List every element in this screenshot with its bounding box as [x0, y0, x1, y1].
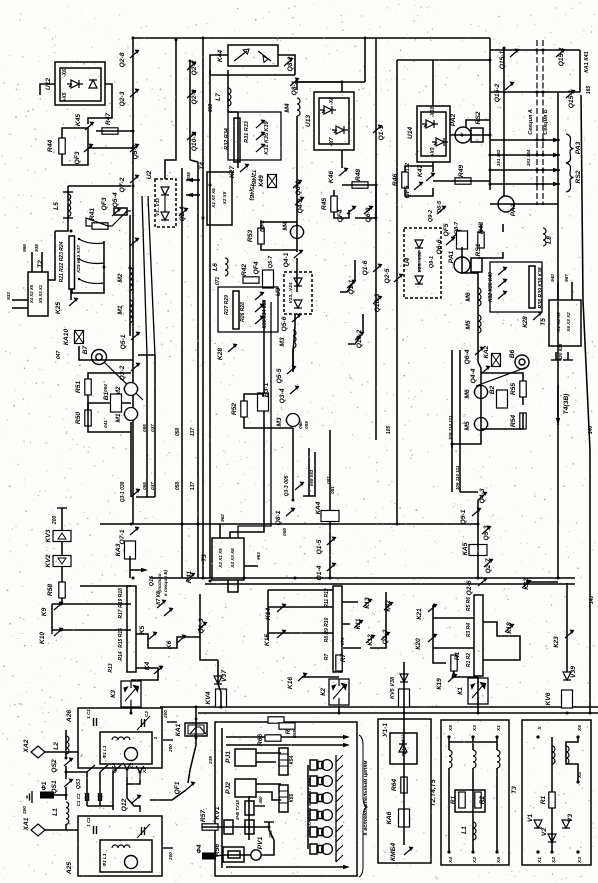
svg-text:-X6: -X6 — [62, 69, 68, 77]
svg-text:L5: L5 — [53, 202, 60, 210]
relay KA3 — [125, 541, 136, 559]
relay KV6 — [562, 690, 573, 708]
wire Q1-1 vertical — [375, 38, 377, 440]
switch Q6-4 — [475, 347, 485, 356]
wire grid row2 — [52, 629, 131, 631]
resistor R49 — [455, 178, 471, 184]
switch Q1-5 — [327, 537, 337, 546]
box R31-R34 block — [228, 112, 281, 160]
arrow line 151 — [490, 139, 560, 141]
wire m1 down — [130, 422, 132, 497]
resistor R51 — [85, 379, 91, 395]
switch K42 — [384, 602, 394, 611]
winding t2 0 — [449, 750, 452, 768]
wire r46 loop — [405, 166, 433, 196]
svg-text:Q4-2: Q4-2 — [297, 198, 304, 213]
switch Q7-1 — [130, 527, 140, 536]
wire grid c right — [342, 592, 386, 648]
switch K12 — [366, 635, 376, 644]
svg-text:X1: X1 — [129, 763, 135, 770]
wire aux bus B — [198, 712, 598, 714]
svg-text:Ф1: Ф1 — [41, 781, 48, 790]
tbar L5 bot — [63, 217, 73, 219]
coil A25 L1 — [112, 845, 130, 848]
svg-text:K46: K46 — [328, 171, 335, 184]
svg-text:K5: K5 — [139, 625, 146, 634]
junction dot 543,184 — [542, 183, 545, 186]
wire T3 feed a — [230, 300, 264, 538]
contact K29 — [79, 239, 104, 244]
terminal X1 top — [495, 735, 498, 738]
wire q15 mid — [490, 91, 580, 93]
svg-text:Q1-1: Q1-1 — [378, 125, 385, 140]
svg-text:QS3: QS3 — [76, 779, 82, 789]
svg-text:К32 К36 К40: К32 К36 К40 — [488, 272, 494, 302]
svg-text:058: 058 — [282, 528, 287, 536]
box U14 outer — [417, 106, 450, 162]
junction dot 210,185 — [209, 184, 212, 187]
meter PJ1 — [235, 749, 256, 766]
wire t2 top link — [449, 741, 497, 743]
svg-text:К1: К1 — [457, 687, 464, 695]
terminal X bot 2 — [495, 850, 498, 853]
svg-text:R21 R22 R23 R24: R21 R22 R23 R24 — [59, 241, 65, 282]
switch K35 — [256, 132, 266, 141]
sensor B6 outer — [515, 355, 529, 369]
svg-text:Q2-8: Q2-8 — [119, 52, 126, 67]
junction dot 131,713 — [130, 712, 133, 715]
junction dot 66,758 — [65, 757, 68, 760]
svg-text:R7: R7 — [340, 653, 347, 662]
svg-text:Q4-3: Q4-3 — [479, 488, 486, 503]
svg-text:987: 987 — [564, 274, 569, 282]
diode V2 — [548, 834, 556, 842]
winding t2 1 — [473, 750, 476, 768]
wire t2 col 0 — [448, 737, 450, 750]
svg-text:Q8-1: Q8-1 — [275, 510, 282, 525]
switch K4 — [154, 666, 164, 675]
coil M6 w — [478, 288, 481, 306]
ant XA1 — [31, 824, 45, 836]
svg-text:R32 R34: R32 R34 — [224, 128, 230, 150]
cap qs a — [86, 793, 89, 801]
junction dot 71,231 — [70, 230, 73, 233]
wire q1-3 vert — [200, 594, 218, 660]
arrowhead aux2 — [343, 743, 350, 747]
svg-text:К54: К54 — [289, 755, 295, 764]
wire grid c top — [268, 589, 333, 591]
svg-text:X6: X6 — [577, 725, 583, 732]
switch Q2-4 — [179, 208, 189, 217]
svg-text:K25: K25 — [55, 302, 62, 315]
resistor bar R38 R39 — [529, 266, 535, 308]
wire U2 feed vertical — [165, 40, 176, 179]
svg-text:Q5-6: Q5-6 — [281, 316, 288, 331]
svg-text:V1: V1 — [527, 814, 534, 822]
svg-text:X2: X2 — [472, 857, 478, 864]
switch K20 — [428, 634, 438, 643]
svg-text:Q1-3: Q1-3 — [198, 618, 205, 633]
wire r45 qf4 loop — [334, 185, 376, 218]
cap A25 C1 — [94, 826, 97, 834]
svg-text:1 С1: 1 С1 — [86, 709, 91, 719]
wire K44 right — [278, 55, 295, 75]
svg-text:К13: К13 — [364, 597, 371, 609]
svg-text:R54: R54 — [510, 415, 517, 428]
svg-text:X2: X2 — [142, 767, 148, 774]
svg-text:-X10: -X10 — [430, 107, 436, 118]
svg-text:QF1: QF1 — [174, 781, 181, 794]
svg-text:105: 105 — [386, 426, 392, 435]
relay box K2 — [329, 679, 349, 705]
diode U12b — [89, 80, 97, 88]
svg-text:088: 088 — [208, 104, 214, 113]
svg-text:КА3: КА3 — [115, 543, 122, 556]
wire r5x bottom — [88, 395, 131, 432]
socket XA5 — [318, 795, 323, 802]
svg-text:Т2: Т2 — [37, 260, 44, 268]
junction dot 140,772 — [139, 771, 142, 774]
svg-text:109 110 111: 109 110 111 — [448, 415, 453, 440]
switch K45 — [85, 122, 95, 131]
svg-text:Т5(4Б): Т5(4Б) — [248, 183, 254, 200]
svg-text:U2: U2 — [146, 170, 153, 179]
switch Q3-1b — [131, 489, 141, 498]
svg-text:ХА1: ХА1 — [23, 817, 30, 831]
svg-text:Q2-6: Q2-6 — [466, 580, 473, 595]
switch K14 — [277, 604, 287, 613]
svg-text:РЈ2: РЈ2 — [225, 782, 232, 794]
switch Q5-2 — [130, 144, 140, 153]
box A25 inner — [100, 840, 152, 872]
svg-text:058: 058 — [175, 482, 181, 491]
svg-text:М6: М6 — [465, 292, 472, 302]
svg-text:Ф4: Ф4 — [196, 844, 203, 853]
svg-text:037: 037 — [150, 482, 155, 490]
relay Q5-4 — [114, 208, 127, 215]
wire L5 — [55, 186, 68, 231]
svg-text:Q6-4: Q6-4 — [464, 349, 471, 364]
svg-text:КА1: КА1 — [175, 723, 182, 736]
switch QS2 — [64, 758, 74, 767]
switch K25 — [69, 298, 79, 307]
resistor R45 — [331, 196, 337, 212]
thyristor U1-1 — [399, 740, 407, 756]
switch K47 — [426, 173, 436, 182]
svg-text:ХА3 ХА4 ХА5 ХА6 ХА7 ХА8: ХА3 ХА4 ХА5 ХА6 ХА7 ХА8 — [307, 778, 312, 837]
switch Q8-1 — [290, 78, 300, 87]
svg-text:М1: М1 — [115, 413, 122, 423]
coil M2 w — [130, 268, 133, 290]
tbar 200 kv3 — [57, 507, 67, 509]
wire Q7-2 cross — [68, 185, 131, 187]
arrow line 154 — [490, 183, 560, 185]
ammeter PA1 — [454, 257, 470, 273]
wire armature pair a — [142, 196, 147, 355]
switch Q4-3 — [478, 492, 488, 501]
socket XA3 — [318, 762, 323, 769]
resistor R47 — [102, 128, 118, 134]
resistor R65 — [279, 723, 295, 729]
wire m3motor down — [292, 428, 294, 500]
wire Q2-2 vertical — [189, 61, 191, 160]
switch Q8-2 — [284, 58, 294, 67]
arrowhead 154 — [553, 182, 560, 186]
lamp XA7 — [322, 827, 333, 838]
junction ka1 top — [195, 718, 198, 721]
junction dot 376,185 — [375, 184, 378, 187]
svg-text:R58: R58 — [47, 584, 54, 597]
coil M4 w — [297, 98, 300, 116]
junction dot 543,155 — [542, 154, 545, 157]
wire spine m3 — [293, 314, 295, 370]
svg-text:R53: R53 — [247, 230, 254, 243]
svg-text:Q3-4: Q3-4 — [279, 388, 286, 403]
arrow 987 — [571, 282, 573, 300]
svg-text:K41: K41 — [186, 571, 193, 584]
wire k19 k1 — [452, 671, 478, 713]
svg-text:РЈ1: РЈ1 — [225, 751, 232, 763]
junction dot 196,707 — [195, 706, 198, 709]
switch K19 — [448, 674, 458, 683]
svg-text:КА2: КА2 — [483, 345, 490, 358]
winding t3 b — [566, 746, 569, 764]
arrow aux2 — [226, 744, 346, 746]
resistor bar R26-R29 — [233, 291, 239, 329]
junction dot 537,155 — [536, 154, 539, 157]
svg-text:X5: X5 — [448, 725, 454, 732]
brace PA3 — [566, 134, 574, 163]
switch Q1-4 — [327, 563, 337, 572]
svg-text:К3: К3 — [110, 690, 117, 698]
svg-text:151 152: 151 152 — [496, 149, 501, 166]
junction dot 133,131 — [132, 130, 135, 133]
diode V39 — [563, 672, 571, 680]
arrow 961 — [12, 307, 28, 309]
motor M1 — [124, 408, 138, 421]
wire t3 b — [566, 737, 578, 782]
junction dot 269,827 — [268, 826, 271, 829]
svg-text:V3: V3 — [567, 814, 574, 822]
relay box K3 — [121, 681, 141, 707]
coil A26 L1 — [112, 737, 130, 740]
svg-text:РА3: РА3 — [510, 203, 517, 216]
wire y82 link — [297, 81, 365, 83]
svg-text:QS4: QS4 — [112, 763, 118, 773]
svg-text:R31 R33: R31 R33 — [244, 121, 250, 143]
switch Q2-2 — [187, 62, 197, 71]
wire right 580 top — [579, 50, 581, 92]
box U14 inner — [421, 112, 446, 156]
resistor R53 — [258, 228, 264, 244]
junction dot 404,713 — [403, 712, 406, 715]
svg-text:140: 140 — [588, 426, 594, 435]
svg-text:К20: К20 — [415, 638, 422, 650]
diode U3b — [294, 300, 302, 308]
winding t2 2 — [497, 750, 500, 768]
svg-text:КА6: КА6 — [386, 811, 393, 824]
svg-text:+X5: +X5 — [62, 92, 68, 101]
svg-text:095: 095 — [142, 424, 147, 432]
relay KA5 — [469, 545, 487, 556]
svg-text:КА1 К41: КА1 К41 — [584, 51, 590, 72]
wire U12 to K45 — [88, 84, 112, 124]
svg-text:Q4-1: Q4-1 — [283, 252, 290, 267]
junction dot 295,578 — [294, 577, 297, 580]
svg-text:200: 200 — [22, 806, 27, 815]
coil L1 t2 — [473, 822, 476, 840]
svg-text:М6: М6 — [464, 389, 471, 399]
junction dot 537,184 — [536, 183, 539, 186]
conn XA7 — [310, 827, 317, 837]
svg-text:047: 047 — [56, 351, 62, 360]
junction dot 104,267 — [103, 266, 106, 269]
resistor bar R13-R19 — [127, 586, 136, 672]
switch Q6-2 — [293, 180, 303, 189]
tbar 820 — [551, 359, 561, 361]
diode V1 — [534, 820, 542, 828]
svg-text:Q6-5: Q6-5 — [437, 200, 443, 213]
arrow T4 a — [186, 179, 200, 181]
arrowhead aux3 — [343, 865, 350, 869]
thyristor U13a — [320, 106, 336, 114]
svg-text:L1: L1 — [461, 826, 468, 834]
wire bus1 y524 — [100, 523, 470, 525]
switch Q6-3 — [364, 206, 374, 215]
conn XA3 — [310, 760, 317, 770]
wire pa3 feed — [503, 48, 505, 196]
wire M4w top — [296, 82, 298, 90]
arrowhead 153 — [553, 168, 560, 172]
svg-text:Q6-3: Q6-3 — [365, 207, 372, 222]
wire k2 down — [338, 706, 340, 713]
box T3 terminals — [212, 538, 244, 580]
resistor R58 — [59, 582, 65, 598]
terminal X3 top — [471, 735, 474, 738]
svg-text:X4: X4 — [448, 857, 454, 864]
switch Q1-3 — [198, 622, 208, 631]
svg-text:Т2,Т4,Т5: Т2,Т4,Т5 — [430, 779, 437, 806]
svg-text:U13: U13 — [305, 115, 312, 128]
svg-text:Q2-1: Q2-1 — [191, 89, 198, 104]
svg-text:Q2-7: Q2-7 — [485, 558, 492, 573]
fuse F1 — [40, 792, 54, 799]
sensor B7 inner — [96, 354, 102, 360]
wire v37 chain — [218, 660, 221, 707]
switch K38 — [255, 316, 265, 325]
conn K54 — [279, 748, 288, 775]
resistor R43 — [478, 232, 484, 248]
junction dot 558,578 — [557, 577, 560, 580]
resistor bar R21-R24 — [69, 236, 75, 289]
svg-text:U3: U3 — [275, 287, 282, 296]
wire QF3 to Q5-2 — [88, 147, 133, 149]
wire 053 loop — [309, 452, 315, 496]
wire k23 vert — [566, 583, 568, 672]
svg-text:Q7-2: Q7-2 — [119, 177, 126, 192]
wire aux inner left — [221, 728, 223, 868]
resistor R48 — [352, 182, 368, 188]
wire loop109 vertical a — [451, 350, 453, 492]
svg-text:X3: X3 — [577, 857, 583, 864]
socket XA7 — [318, 829, 323, 836]
svg-text:К29 К33 К37: К29 К33 К37 — [76, 245, 82, 273]
wire row y75 — [210, 74, 295, 76]
conn XA4 — [310, 776, 317, 786]
svg-text:R15 R16: R15 R16 — [118, 628, 124, 648]
wire qs3 grid top — [66, 771, 87, 773]
term X1 — [123, 763, 131, 777]
junction dot 478,524 — [477, 523, 480, 526]
junction dot 462,135 — [461, 134, 464, 137]
contact K44 arrowheads — [243, 49, 268, 63]
switch Q3-4 — [290, 386, 300, 395]
svg-text:КА10: КА10 — [63, 329, 70, 346]
relay KA4 — [321, 511, 339, 522]
diode U4b — [415, 276, 423, 284]
wire q5-4 link — [86, 211, 131, 226]
wire m4 spine — [296, 224, 298, 252]
switch Q1-2 — [381, 632, 391, 641]
arrow aux1 — [226, 736, 346, 738]
svg-text:R19 R18: R19 R18 — [118, 588, 124, 608]
resistor RS3 — [268, 717, 284, 723]
switch K34 — [255, 304, 265, 313]
svg-text:L7: L7 — [215, 93, 222, 101]
svg-text:041: 041 — [103, 420, 108, 428]
resistor R7 v — [336, 655, 342, 671]
wire r50 loop — [88, 403, 131, 410]
relay QF4 rel — [263, 270, 274, 288]
resistor R1 t2 — [459, 792, 465, 808]
svg-text:Q6-2: Q6-2 — [295, 180, 302, 195]
wire sec dash A — [536, 40, 538, 205]
junction dot 537,92 — [536, 91, 539, 94]
svg-text:Q9-3: Q9-3 — [483, 525, 490, 540]
line B7 shaft — [104, 362, 143, 400]
wire loop109 join — [460, 491, 478, 493]
arrowhead 151 — [553, 138, 560, 142]
svg-text:400: 400 — [258, 796, 263, 805]
relay KV4 — [216, 689, 227, 707]
box A26 inner — [100, 732, 152, 764]
svg-text:Т4(3В): Т4(3В) — [563, 393, 570, 415]
wire res bar top — [237, 112, 239, 168]
wire KA4 chain — [329, 500, 331, 578]
svg-text:R45: R45 — [321, 198, 328, 211]
svg-text:Т4: Т4 — [199, 162, 206, 170]
sensor B7 outer — [92, 350, 107, 365]
wire r53 m4 — [261, 222, 297, 250]
svg-text:Q9-1: Q9-1 — [460, 509, 467, 524]
terminal X5 top — [447, 735, 450, 738]
svg-text:200: 200 — [168, 852, 173, 861]
svg-text:820 928: 820 928 — [558, 343, 563, 360]
svg-text:Q10-3: Q10-3 — [374, 293, 381, 312]
meter PJ2 — [235, 779, 256, 797]
box T5 terminals — [549, 300, 581, 346]
resistor R57 — [202, 824, 218, 830]
sensor B6 inner — [519, 359, 525, 365]
arrow KV2 — [58, 558, 66, 564]
junction dot 210,581 — [209, 580, 212, 583]
wire l1 xa1 — [65, 824, 67, 830]
wire loop top join — [138, 354, 155, 356]
relay B3-1 — [258, 393, 269, 411]
conn K55 — [279, 785, 288, 812]
svg-text:Т3: Т3 — [201, 554, 208, 562]
resistor R1 l — [451, 655, 457, 671]
